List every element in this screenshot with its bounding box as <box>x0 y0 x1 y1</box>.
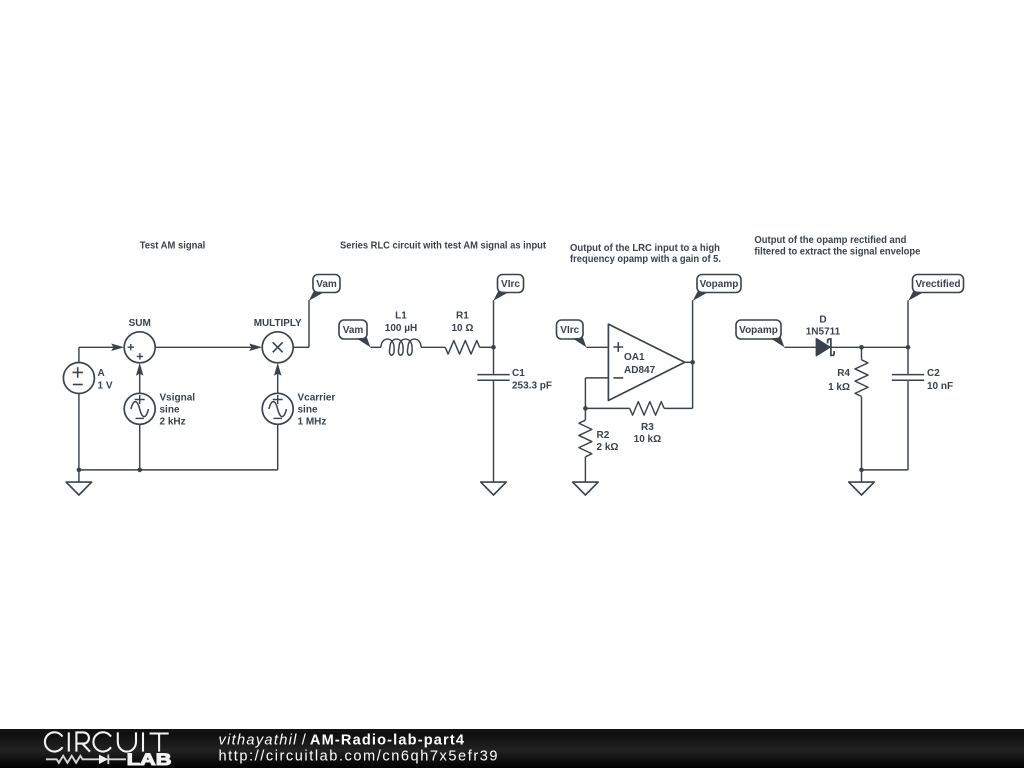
wire feedback node to R3 <box>585 407 629 409</box>
resistor R1 <box>445 341 479 355</box>
svg-text:1 V: 1 V <box>98 380 113 391</box>
svg-text:Series RLC circuit with test A: Series RLC circuit with test AM signal a… <box>340 241 547 252</box>
wire bottom rail C2 to R4 <box>862 469 909 471</box>
label L1 100uH <box>385 311 417 335</box>
sine source Vcarrier <box>262 393 293 424</box>
flag Vopamp (input) <box>736 320 784 347</box>
diode D 1N5711 (schottky) <box>816 339 834 356</box>
junction node feedback <box>583 406 588 411</box>
wire C2 bottom <box>907 381 909 470</box>
wire diode to C2 node <box>831 346 908 348</box>
CircuitLab logo: resistor-diode glyph <box>46 755 126 765</box>
svg-text:sine: sine <box>160 405 180 416</box>
svg-text:SUM: SUM <box>129 318 151 329</box>
junction node VIrc <box>491 345 496 350</box>
svg-text:Vopamp: Vopamp <box>700 279 739 290</box>
wire Vsignal to SUM <box>139 373 141 393</box>
svg-text:C1: C1 <box>512 368 525 379</box>
wire node up to Vrectified flag <box>907 300 909 347</box>
flag Vam (output) <box>309 275 340 301</box>
svg-text:Vrectified: Vrectified <box>915 279 960 290</box>
svg-text:filtered to extract the signal: filtered to extract the signal envelope <box>754 246 920 257</box>
label Vcarrier sine 1MHz <box>298 393 336 428</box>
wire L1 to R1 <box>421 346 445 348</box>
flag VIrc (input) <box>557 320 587 347</box>
svg-text:LAB: LAB <box>127 751 172 768</box>
label R1 10ohm <box>451 311 473 335</box>
svg-text:Output of the LRC input to a h: Output of the LRC input to a high <box>570 243 720 254</box>
wire R1 to node <box>480 346 494 348</box>
wire Vam flag to L1 <box>370 346 381 348</box>
svg-text:sine: sine <box>298 405 318 416</box>
svg-text:R4: R4 <box>837 368 850 379</box>
wire C2 top <box>907 347 909 374</box>
junction node Vrectified <box>906 345 911 350</box>
resistor R2 <box>579 420 592 457</box>
svg-text:Vam: Vam <box>316 279 337 290</box>
svg-text:Output of the opamp rectified: Output of the opamp rectified and <box>754 235 906 246</box>
svg-text:Vam: Vam <box>343 325 364 336</box>
label R2 2kohm <box>597 430 619 453</box>
junction node at A bottom <box>77 468 82 473</box>
svg-text:10 Ω: 10 Ω <box>451 323 473 334</box>
junction node at Vsignal bottom <box>137 468 142 473</box>
multiplier MULTIPLY <box>262 332 293 363</box>
sine source Vsignal <box>124 393 155 424</box>
svg-text:10 nF: 10 nF <box>927 381 953 392</box>
arrowhead into MULTIPLY left <box>249 344 262 352</box>
wire opamp output <box>685 361 693 363</box>
svg-text:2 kHz: 2 kHz <box>160 417 186 428</box>
arrowhead into SUM left <box>111 344 124 352</box>
wire Vsignal bottom <box>139 424 141 470</box>
label D 1N5711 <box>806 315 841 338</box>
label C1 253.3pF <box>512 368 552 391</box>
flag Vopamp (output) <box>693 275 741 301</box>
wire ground stub <box>861 470 863 482</box>
arrowhead into SUM bottom <box>136 363 144 376</box>
wire A top to SUM row <box>78 347 80 362</box>
svg-text:A: A <box>98 368 105 379</box>
capacitor C2 <box>892 375 924 381</box>
junction node diode-R4 <box>859 345 864 350</box>
ground (section 3) <box>573 482 599 495</box>
wire node to R4 <box>861 347 863 360</box>
wire node to R2 <box>584 408 586 420</box>
arrowhead into MULTIPLY bottom <box>274 363 282 376</box>
svg-text:R1: R1 <box>456 311 469 322</box>
op-amp OA1 AD847 <box>608 324 684 400</box>
wire Vcarrier to MULTIPLY <box>277 373 279 393</box>
wire R4 to bottom rail <box>861 396 863 470</box>
svg-text:100 µH: 100 µH <box>385 323 417 334</box>
wire MULTIPLY to Vam flag <box>293 346 309 348</box>
title: Output of the LRC input to a high frequency opamp with a gain of 5. <box>570 243 721 265</box>
svg-text:MULTIPLY: MULTIPLY <box>254 318 302 329</box>
junction node output <box>690 360 695 365</box>
svg-text:2 kΩ: 2 kΩ <box>597 442 619 453</box>
wire VIrc flag to opamp + input <box>586 346 608 348</box>
wire R2 to ground <box>584 457 586 482</box>
wire Vopamp flag to diode <box>784 346 816 348</box>
svg-text:http://circuitlab.com/cn6qh7x5: http://circuitlab.com/cn6qh7x5efr39 <box>219 749 500 765</box>
svg-text:VIrc: VIrc <box>501 279 520 290</box>
wire opamp - input <box>585 377 608 379</box>
svg-text:Vcarrier: Vcarrier <box>298 393 336 404</box>
svg-text:R3: R3 <box>641 422 654 433</box>
svg-text:frequency opamp with a gain of: frequency opamp with a gain of 5. <box>570 254 721 265</box>
voltage source A 1V <box>63 363 94 394</box>
svg-text:VIrc: VIrc <box>560 325 579 336</box>
ground (section 2) <box>481 482 507 495</box>
wire R3 to output branch <box>664 407 693 409</box>
label OA1 AD847 <box>624 352 656 376</box>
svg-text:Test AM signal: Test AM signal <box>140 241 206 252</box>
label Vsignal sine 2kHz <box>160 393 196 428</box>
svg-text:Vsignal: Vsignal <box>160 393 196 404</box>
inductor L1 <box>381 339 421 355</box>
label R4 1kohm <box>828 368 850 393</box>
svg-text:L1: L1 <box>395 311 407 322</box>
svg-text:10 kΩ: 10 kΩ <box>634 434 661 445</box>
junction node bottom <box>859 468 864 473</box>
svg-text:R2: R2 <box>597 430 610 441</box>
ground (section 4) <box>849 482 875 495</box>
resistor R3 <box>630 402 664 416</box>
wire C1 to ground <box>493 381 495 482</box>
CircuitLab logo: CIRCUIT <box>45 732 169 751</box>
wire node up to VIrc flag <box>493 300 495 347</box>
svg-text:1N5711: 1N5711 <box>806 327 841 338</box>
title: Output of the opamp rectified and filtered to extract the signal envelope <box>754 235 920 257</box>
wire node to C1 <box>493 347 495 374</box>
svg-text:1 MHz: 1 MHz <box>298 417 327 428</box>
capacitor C1 <box>477 375 509 381</box>
flag Vrectified (output) <box>908 275 963 301</box>
adder SUM <box>124 332 155 363</box>
wire SUM to MULTIPLY <box>155 346 251 348</box>
svg-text:C2: C2 <box>927 368 940 379</box>
label A 1V <box>98 368 113 391</box>
ground (section 1) <box>66 482 92 495</box>
svg-text:D: D <box>819 315 826 326</box>
wire Vcarrier bottom <box>277 424 279 470</box>
wire bottom rail <box>79 469 278 471</box>
svg-text:1 kΩ: 1 kΩ <box>828 382 850 393</box>
svg-text:OA1: OA1 <box>624 352 645 363</box>
label R3 10kohm <box>634 422 661 445</box>
flag VIrc (output) <box>493 275 523 301</box>
svg-text:AD847: AD847 <box>624 365 656 376</box>
wire A bottom to ground rail <box>78 394 80 483</box>
flag Vam (input) <box>339 320 370 347</box>
svg-text:Vopamp: Vopamp <box>739 325 778 336</box>
wire output up to Vopamp flag <box>692 300 694 362</box>
resistor R4 <box>855 360 868 397</box>
svg-text:vithayathil / AM-Radio-lab-par: vithayathil / AM-Radio-lab-part4 <box>219 733 466 749</box>
label C2 10nF <box>927 368 953 392</box>
svg-text:253.3 pF: 253.3 pF <box>512 380 552 391</box>
